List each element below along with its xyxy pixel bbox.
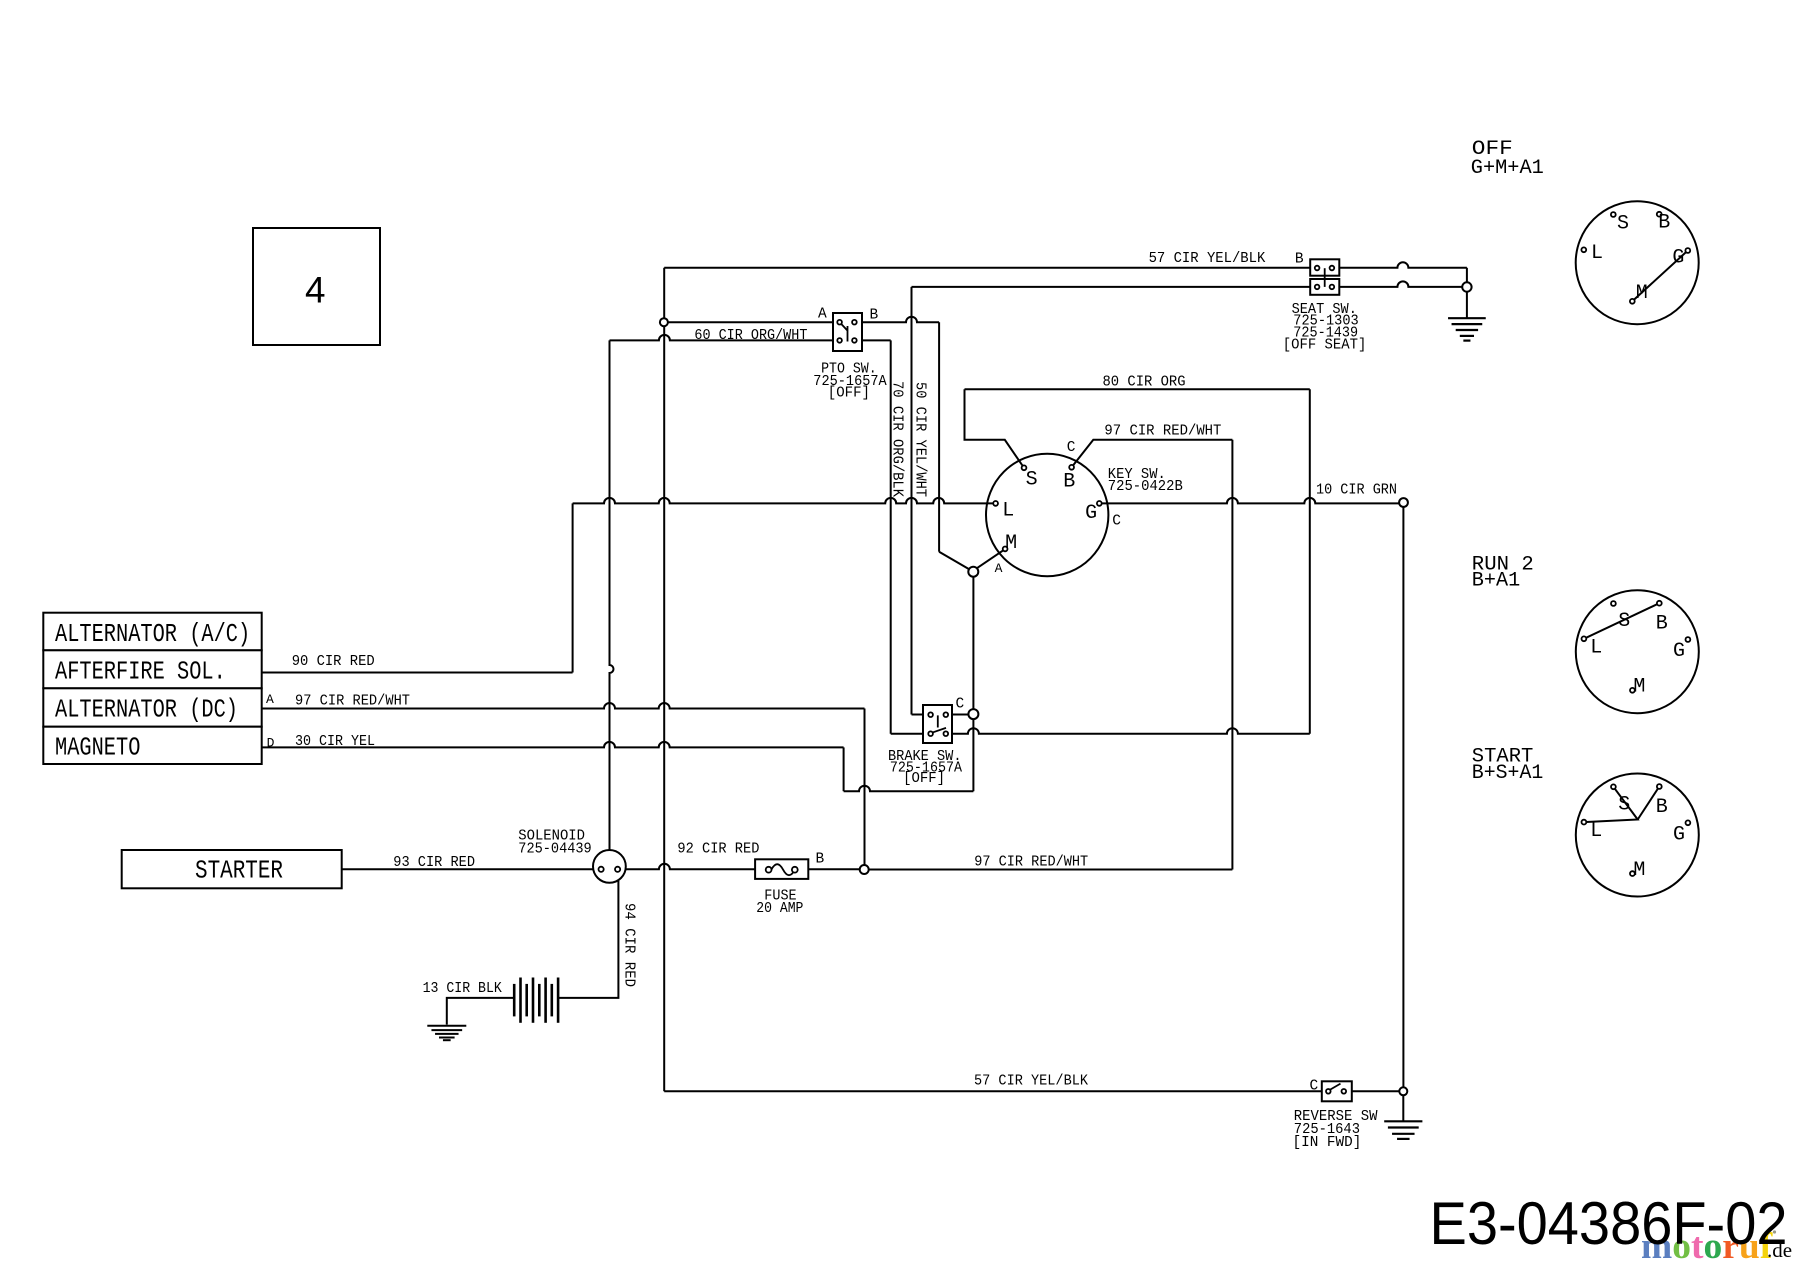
box STARTER	[122, 850, 342, 888]
wire 13 CIR BLK battery to ground	[447, 998, 514, 1025]
svg-text:50 CIR YEL/WHT: 50 CIR YEL/WHT	[912, 382, 928, 497]
pin fuse left	[766, 867, 772, 873]
pin fuse right	[792, 867, 798, 873]
svg-text:4: 4	[305, 269, 326, 311]
pin seat switch	[1315, 285, 1320, 290]
ground (reverse switch)	[1384, 1120, 1422, 1122]
wire 97 CIR RED/WHT from key B pin	[1072, 440, 1233, 468]
wire ALTERNATOR DC drop to fuse node	[864, 709, 866, 866]
svg-text:ALTERNATOR (A/C): ALTERNATOR (A/C)	[55, 619, 250, 649]
wire 70 CIR ORG/BLK into brake switch	[891, 733, 931, 735]
box MAGNETO	[43, 727, 261, 764]
pin reverse switch	[1326, 1089, 1331, 1094]
svg-text:[OFF]: [OFF]	[903, 771, 945, 787]
pin key switch G	[1097, 501, 1102, 506]
pin key switch M	[1003, 547, 1008, 552]
svg-text:13 CIR BLK: 13 CIR BLK	[423, 981, 502, 997]
wire 97 CIR RED/WHT bottom run	[869, 869, 1233, 871]
fuse element	[771, 864, 795, 875]
pin brake switch	[944, 731, 949, 736]
pin START S	[1611, 784, 1616, 789]
switch SEAT SW. upper body	[1310, 259, 1339, 275]
node A junction	[968, 567, 978, 577]
pin OFF G	[1685, 248, 1690, 253]
svg-text:90 CIR RED: 90 CIR RED	[292, 654, 375, 670]
wire corner down to seat ground node	[1466, 268, 1468, 283]
wire diagonal node A to key M pin	[977, 549, 1006, 568]
svg-text:C: C	[1112, 513, 1121, 529]
lever OFF M-G	[1632, 251, 1688, 302]
wire reverse ground drop	[1402, 1095, 1404, 1120]
svg-text:M: M	[1633, 859, 1645, 882]
svg-text:94 CIR RED: 94 CIR RED	[621, 903, 637, 987]
wire 70 CIR ORG/BLK vertical	[890, 340, 892, 733]
pin RUN2 G	[1686, 637, 1691, 642]
svg-text:A: A	[818, 307, 827, 323]
svg-text:M: M	[1636, 282, 1648, 305]
wire 97 CIR RED/WHT vertical (x=1232)	[1231, 440, 1233, 870]
wire 57 CIR YEL/BLK bottom run	[664, 1090, 1328, 1092]
wire 93 CIR RED starter to solenoid	[342, 868, 601, 870]
pin brake switch	[928, 731, 933, 736]
node connector (x=664,y=322)	[660, 318, 668, 326]
pin RUN2 M	[1630, 688, 1635, 693]
wire 92 CIR RED solenoid to fuse	[618, 864, 755, 869]
svg-text:[OFF SEAT]: [OFF SEAT]	[1283, 338, 1367, 354]
svg-text:57 CIR YEL/BLK: 57 CIR YEL/BLK	[1149, 251, 1266, 267]
pin OFF S	[1611, 212, 1616, 217]
svg-text:S: S	[1617, 213, 1629, 236]
lever RUN2 L-B	[1584, 603, 1659, 639]
svg-text:10 CIR GRN: 10 CIR GRN	[1316, 482, 1397, 498]
svg-text:B: B	[870, 308, 879, 324]
svg-text:C: C	[1067, 440, 1076, 456]
wire 97 CIR RED/WHT from ALTERNATOR (DC)	[262, 703, 865, 708]
wire keyswitch M feeder vertical (x=939)	[938, 322, 940, 552]
svg-text:STARTER: STARTER	[195, 856, 283, 886]
svg-text:80 CIR ORG: 80 CIR ORG	[1103, 374, 1186, 390]
wire node A down to brake C node	[972, 577, 974, 709]
pin PTO	[852, 320, 857, 325]
wire vertical main bus (x=664) from top line to bottom 57 line	[663, 268, 665, 1091]
pin brake switch	[944, 712, 949, 717]
fuse body	[755, 859, 808, 879]
wire seat ground drop	[1466, 292, 1468, 318]
svg-text:S: S	[1618, 610, 1630, 633]
wire 60 CIR ORG/WHT to PTO pin A	[668, 321, 840, 323]
pin PTO	[837, 320, 842, 325]
svg-text:C: C	[1310, 1079, 1319, 1095]
wire 90 CIR RED riser	[572, 503, 574, 672]
node 10 CIR GRN end	[1399, 498, 1408, 507]
node fuse output junction	[860, 865, 869, 874]
wire 80 CIR ORG left drop to key S pin	[965, 389, 1025, 468]
wire 94 CIR RED solenoid to battery	[558, 881, 619, 998]
wire vertical bus (x=609.5) PTO feed down to solenoid	[610, 340, 614, 850]
svg-text:30 CIR YEL: 30 CIR YEL	[295, 734, 375, 750]
svg-text:B: B	[1658, 211, 1670, 234]
switch REVERSE lever	[1330, 1084, 1341, 1090]
switch REVERSE SW body	[1322, 1081, 1352, 1101]
wire key L feed (left of key switch)	[573, 498, 996, 503]
svg-text:E3-04386F-02: E3-04386F-02	[1430, 1190, 1788, 1257]
box ALTERNATOR (A/C)	[43, 613, 261, 651]
svg-text:97 CIR RED/WHT: 97 CIR RED/WHT	[1104, 423, 1221, 439]
svg-text:60 CIR ORG/WHT: 60 CIR ORG/WHT	[694, 328, 807, 344]
switch BRAKE lever	[932, 715, 946, 732]
wire 10 CIR GRN long vertical (x=1403)	[1402, 507, 1404, 1088]
wire 80 CIR ORG horizontal	[965, 388, 1310, 390]
wire fuse to junction node B	[808, 868, 859, 870]
wire 57 CIR YEL/BLK top segment (right of seat switch) with connector	[1332, 262, 1467, 268]
wire 50 CIR YEL/WHT into brake top-left pin	[912, 714, 931, 716]
battery	[513, 984, 516, 1017]
pin START M	[1630, 871, 1635, 876]
wire 90 CIR RED horizontal from AFTERFIRE SOL.	[262, 672, 573, 674]
svg-text:725-0422B: 725-0422B	[1108, 479, 1183, 495]
svg-text:B: B	[1656, 796, 1668, 819]
pin START B	[1657, 784, 1662, 789]
wire 30 CIR YEL drop	[843, 747, 845, 791]
pin brake switch	[928, 712, 933, 717]
svg-text:M: M	[1005, 532, 1017, 555]
pin seat switch	[1330, 285, 1335, 290]
svg-text:57 CIR YEL/BLK: 57 CIR YEL/BLK	[974, 1073, 1088, 1089]
svg-text:B: B	[1063, 471, 1075, 494]
svg-text:20 AMP: 20 AMP	[756, 901, 803, 917]
ground (seat switch)	[1448, 317, 1486, 319]
svg-text:L: L	[1002, 500, 1014, 523]
wire 50 CIR YEL/WHT vertical	[911, 287, 913, 715]
node reverse ground junction	[1399, 1087, 1407, 1095]
pin PTO	[837, 338, 842, 343]
switch SEAT SW. link	[1324, 268, 1326, 287]
wire 30 CIR YEL to brake common	[844, 786, 974, 791]
pin RUN2 L	[1582, 636, 1587, 641]
switch BRAKE SW. body	[923, 705, 952, 743]
svg-text:B: B	[816, 851, 825, 867]
svg-text:725-04439: 725-04439	[518, 841, 591, 857]
pin seat switch	[1315, 266, 1320, 271]
wire 80 CIR ORG vertical (x=1310)	[1309, 389, 1311, 733]
legend box 4	[253, 228, 380, 345]
pin reverse switch	[1342, 1089, 1347, 1094]
svg-text:G: G	[1085, 502, 1097, 525]
pin RUN2 B	[1657, 601, 1662, 606]
pin key switch L	[993, 501, 998, 506]
wire PTO pin B to keyswitch-M feeder	[854, 317, 939, 323]
svg-text:C: C	[956, 697, 965, 713]
svg-text:M: M	[1633, 676, 1645, 699]
svg-text:A: A	[995, 561, 1003, 576]
svg-text:S: S	[1618, 793, 1630, 816]
node brake C junction	[968, 709, 978, 719]
wire diagonal into node A	[939, 552, 969, 570]
wire reverse switch to ground node	[1344, 1090, 1400, 1092]
pin key switch B	[1069, 465, 1074, 470]
svg-text:G+M+A1: G+M+A1	[1471, 157, 1544, 180]
key position diagram RUN 2 circle	[1576, 590, 1699, 713]
wire PTO lower right to 70 CIR ORG/BLK corner	[854, 339, 890, 341]
pin RUN2 S	[1611, 601, 1616, 606]
pin OFF B	[1657, 212, 1662, 217]
node seat ground junction	[1462, 282, 1471, 291]
switch PTO lever	[841, 323, 848, 341]
wire brake common riser (below node)	[972, 719, 974, 791]
svg-text:A: A	[266, 692, 274, 707]
svg-text:L: L	[1591, 242, 1603, 265]
svg-text:B: B	[1295, 252, 1304, 268]
svg-text:L: L	[1590, 637, 1602, 660]
svg-text:G: G	[1673, 640, 1685, 663]
pin START L	[1582, 820, 1587, 825]
svg-text:70 CIR ORG/BLK: 70 CIR ORG/BLK	[889, 381, 905, 497]
box AFTERFIRE SOL.	[43, 650, 261, 688]
svg-text:97 CIR RED/WHT: 97 CIR RED/WHT	[974, 854, 1088, 870]
svg-text:AFTERFIRE SOL.: AFTERFIRE SOL.	[55, 656, 226, 686]
svg-text:S: S	[1026, 468, 1038, 491]
pin solenoid left	[599, 867, 604, 872]
key switch KEY SW. body	[986, 454, 1108, 576]
pin PTO	[852, 338, 857, 343]
svg-text:B: B	[1656, 613, 1668, 636]
svg-text:92 CIR RED: 92 CIR RED	[677, 841, 759, 857]
switch PTO SW. body	[833, 313, 862, 351]
pin OFF L	[1581, 247, 1586, 252]
wire seat switch lower return (right) with connector	[1332, 281, 1463, 287]
svg-text:[IN FWD]: [IN FWD]	[1293, 1135, 1362, 1151]
wire 30 CIR YEL from MAGNETO	[262, 742, 844, 748]
wire seat switch lower return (left)	[912, 286, 1318, 288]
wire 10 CIR GRN from key G pin	[1099, 498, 1399, 503]
solenoid body	[593, 850, 626, 883]
svg-text:MAGNETO: MAGNETO	[55, 733, 140, 763]
wire brake top-right pin to C node	[946, 714, 969, 716]
svg-text:G: G	[1672, 247, 1684, 270]
wire brake bottom-right pin to 80 CIR ORG drop	[946, 728, 1310, 733]
wire 57 CIR YEL/BLK top segment (left of seat switch)	[664, 267, 1317, 269]
pin key switch S	[1022, 465, 1027, 470]
lever START L-S-B	[1584, 787, 1659, 823]
wire 60 CIR ORG/WHT lower segment	[610, 335, 840, 340]
svg-text:97 CIR RED/WHT: 97 CIR RED/WHT	[295, 693, 410, 709]
svg-text:L: L	[1590, 820, 1602, 843]
svg-text:B+S+A1: B+S+A1	[1472, 762, 1544, 785]
pin seat switch	[1330, 266, 1335, 271]
svg-text:B+A1: B+A1	[1472, 569, 1520, 592]
key position diagram OFF circle	[1576, 201, 1699, 324]
svg-text:G: G	[1673, 823, 1685, 846]
svg-text:ALTERNATOR (DC): ALTERNATOR (DC)	[55, 695, 238, 725]
switch SEAT SW. lower body	[1310, 279, 1339, 295]
key position diagram START circle	[1576, 774, 1699, 897]
ground (battery)	[427, 1025, 466, 1027]
pin START G	[1686, 820, 1691, 825]
svg-text:93 CIR RED: 93 CIR RED	[393, 855, 475, 871]
pin OFF M	[1630, 299, 1635, 304]
svg-text:D: D	[267, 736, 275, 751]
box ALTERNATOR (DC)	[43, 688, 261, 726]
svg-text:[OFF]: [OFF]	[828, 385, 870, 401]
pin solenoid right	[615, 867, 620, 872]
